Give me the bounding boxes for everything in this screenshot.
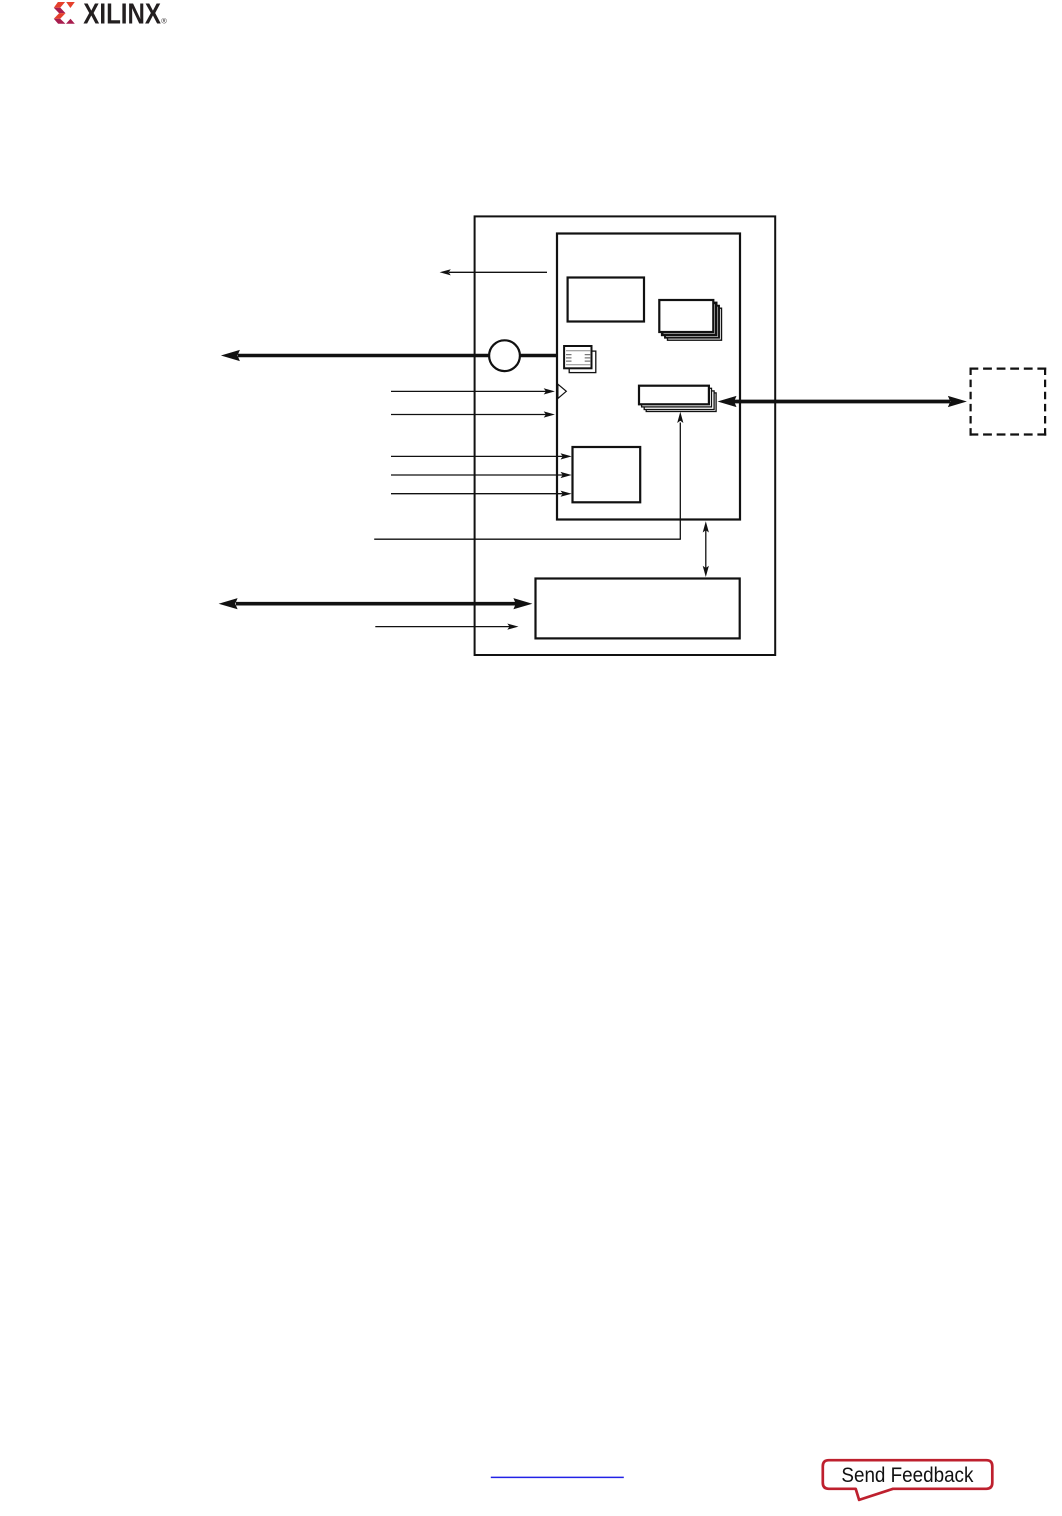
svg-text:®: ® <box>161 17 167 26</box>
svg-text:XILINX: XILINX <box>83 0 161 30</box>
svg-text:Send Feedback: Send Feedback <box>841 1464 973 1487</box>
